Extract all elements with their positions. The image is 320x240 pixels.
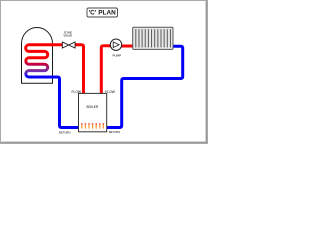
svg-text:RETURN: RETURN (109, 130, 120, 134)
boiler flames (81, 123, 104, 129)
return label right (109, 130, 120, 134)
red flow pipe: pump to radiator (121, 45, 134, 48)
pump (110, 39, 121, 50)
svg-text:FLOW: FLOW (105, 90, 115, 94)
pump label (112, 54, 121, 58)
svg-text:RETURN: RETURN (59, 130, 71, 134)
svg-text:PUMP: PUMP (112, 54, 121, 58)
flow label right (105, 90, 115, 94)
red flow pipe: zone valve to boiler (75, 45, 84, 95)
plan title box (87, 8, 118, 17)
boiler label (87, 105, 99, 109)
svg-text:VALVE: VALVE (63, 34, 72, 38)
radiator (133, 27, 173, 49)
zone valve label (63, 31, 72, 38)
coil (red to blue gradient) and blue return pipe to boiler (26, 45, 80, 128)
flow label left (71, 90, 81, 94)
return label left (59, 130, 71, 134)
svg-text:FLOW: FLOW (71, 90, 81, 94)
boiler (79, 93, 107, 131)
zone valve (62, 42, 75, 48)
blue return pipe: radiator to boiler (106, 46, 183, 127)
frame border (1, 1, 208, 144)
cylinder (hot water tank) (22, 28, 53, 84)
svg-text:'C' PLAN: 'C' PLAN (89, 10, 117, 17)
red flow pipe: boiler to pump (101, 46, 110, 95)
svg-text:BOILER: BOILER (87, 105, 99, 109)
